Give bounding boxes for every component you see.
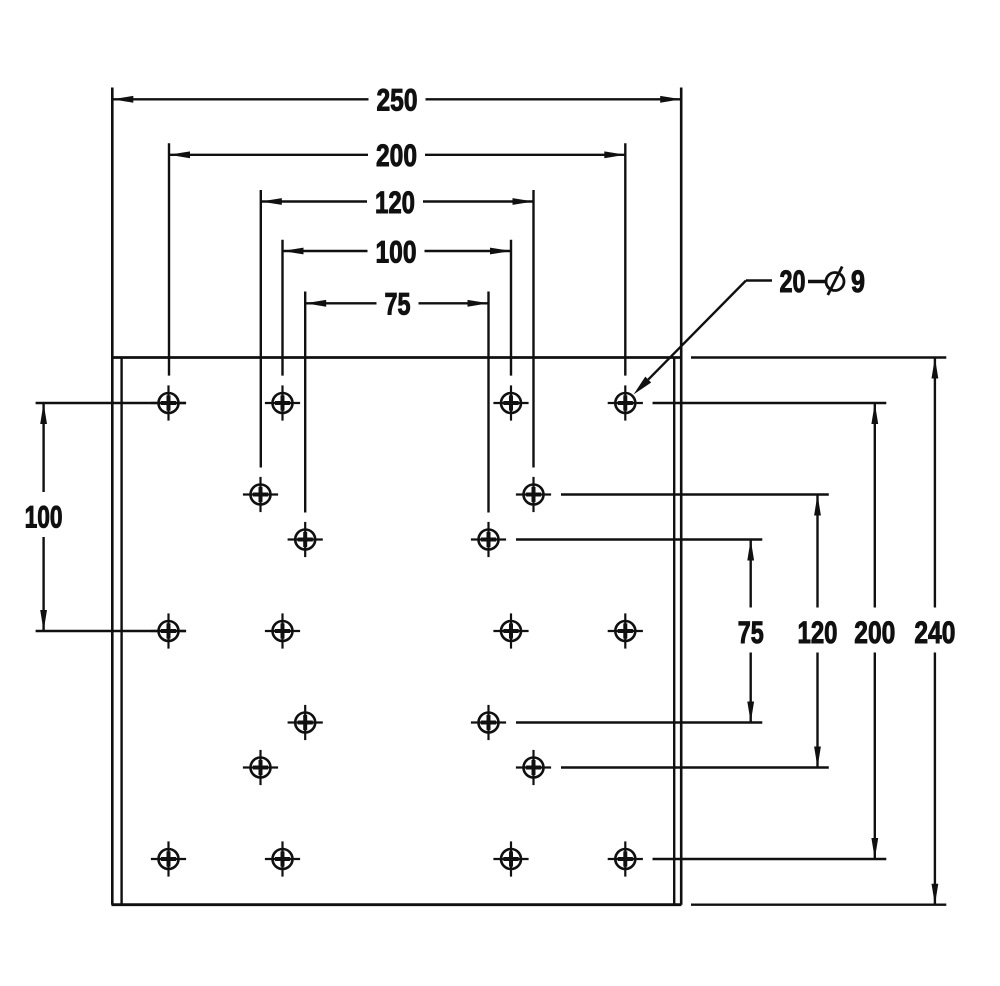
svg-text:75: 75 (385, 287, 411, 322)
svg-text:20: 20 (780, 264, 806, 299)
svg-text:100: 100 (25, 499, 63, 534)
svg-text:9: 9 (851, 264, 865, 299)
svg-text:75: 75 (738, 615, 764, 650)
svg-text:120: 120 (798, 615, 838, 650)
svg-text:240: 240 (914, 615, 955, 650)
svg-text:200: 200 (854, 615, 895, 650)
svg-text:100: 100 (376, 234, 417, 269)
svg-text:250: 250 (377, 83, 418, 118)
svg-text:200: 200 (376, 138, 417, 173)
svg-text:120: 120 (375, 185, 415, 220)
